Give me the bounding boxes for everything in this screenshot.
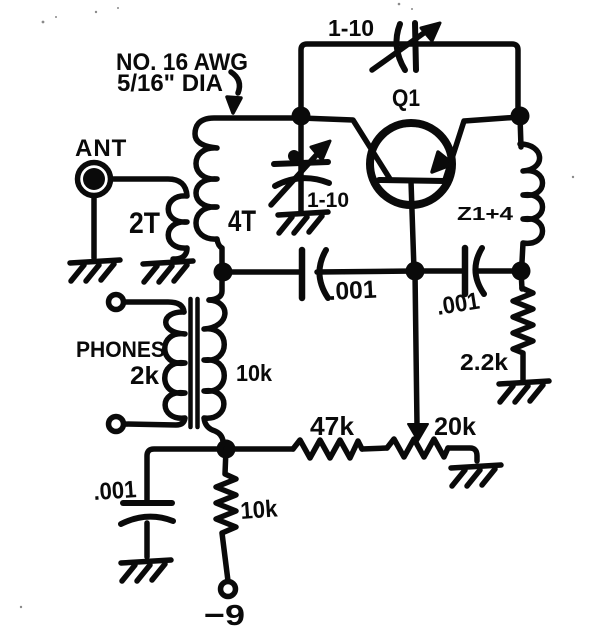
wire: L1 node down to secondary [209,272,222,300]
ground below pot [451,465,501,486]
svg-text:5/16" DIA: 5/16" DIA [117,70,223,97]
svg-text:Q1: Q1 [392,85,420,112]
wire: base node to 20k pot wiper [415,272,417,425]
wire: antenna jack to ground [91,196,97,258]
resistor R2 47k [293,440,362,458]
terminal: phones bottom [109,417,124,432]
capacitor C3 .001 left plate [299,250,306,298]
svg-text:2.2k: 2.2k [460,349,508,375]
transformer T1 secondary winding 10k [204,300,225,446]
transformer T1 core line right [195,299,200,427]
svg-text:−9: −9 [204,600,245,632]
ground below R1 [499,381,549,402]
wire: bottom junction to 47k [226,446,293,452]
svg-text:Z1+4: Z1+4 [457,204,513,224]
wire: C3 to emitter node [317,271,415,272]
capacitor C1 adjustment arrow [372,23,440,70]
svg-text:.001: .001 [328,276,377,306]
wire: left node to Q1 (collector lead) [301,118,390,179]
capacitor C2 variable 1-10 (middle) lead from node to ground [298,116,304,212]
capacitor C1 variable 1-10 (top) left curved plate [396,24,405,70]
capacitor C1 variable 1-10 (top) right straight plate [415,23,416,70]
terminal: antenna jack [78,163,111,196]
ground below C5 [121,560,171,581]
svg-text:4T: 4T [228,205,256,238]
leader arrow from note to coil L1 [227,72,241,113]
capacitor C2 top plate [274,162,328,164]
ground below 2T coil [143,261,193,282]
svg-text:20k: 20k [434,413,476,441]
svg-text:47k: 47k [310,411,355,441]
terminal: phones top [109,295,124,310]
ground below antenna jack [70,260,120,281]
svg-text:1-10: 1-10 [328,15,374,41]
inductor L1 main coil 4T [195,118,301,272]
terminal: -9V battery [221,582,236,597]
wire: pot right end to ground [448,448,477,461]
svg-text:10k: 10k [236,360,272,386]
wire: Q1 base lead down through emitter node [411,181,414,270]
node: junction of top loop and Z coil at right [511,107,530,126]
resistor R4 10k [216,449,236,581]
arrowhead: pot wiper [408,424,428,441]
transistor Q1 base bar [379,180,444,181]
capacitor C2 bottom curved plate [275,178,329,186]
svg-text:.001: .001 [93,476,138,506]
wire: emitter node to C4 [415,268,463,274]
wire: C4 to right rail node [477,268,513,274]
capacitor C5 .001 bottom curved plate [121,517,173,524]
wire: 47k to 20k pot [362,448,387,449]
wire: top feedback loop [301,44,518,116]
inductor Z1 choke coil [520,144,543,262]
capacitor C3 .001 right curved plate [319,250,328,298]
potentiometer R3 20k body [387,439,448,457]
wire: right node to Q1 (emitter lead) [445,117,520,180]
svg-text:1-10: 1-10 [307,189,349,212]
svg-text:10k: 10k [240,495,279,525]
wire: bottom junction to C5 [147,449,218,503]
capacitor C2 adjustment arrow [271,141,330,205]
svg-text:PHONES: PHONES [76,337,165,362]
wire: C5 to ground [144,523,150,557]
node: bottom junction [217,440,236,459]
transistor Q1 circle [370,123,452,205]
capacitor C4 .001 left plate [462,248,469,294]
resistor R1 2.2k [513,288,533,380]
wire: L1 bottom to C3 [223,269,300,275]
wire: right rail top node down to Z coil [520,116,521,147]
transistor Q1 emitter arrowhead [432,152,453,172]
node: junction of L1 top, C1, C2 and Q1 [292,107,311,126]
wire: phones top terminal to primary [124,302,184,312]
svg-text:2T: 2T [129,207,160,240]
capacitor C5 .001 top plate [123,500,172,506]
transformer T1 primary winding 2k [124,312,185,425]
node: right rail / Z coil / 2.2k junction [512,262,531,281]
svg-text:2k: 2k [130,362,159,390]
ground below C2 [278,212,328,233]
transformer T1 core line left [188,299,193,427]
inductor 2T antenna coupling coil (with wire from antenna) [111,179,187,259]
node: emitter junction [406,262,425,281]
wire: rail node to R1 [521,271,522,289]
capacitor C4 .001 right curved plate [475,248,484,294]
node: L1 bottom / transformer / C3 junction [214,263,233,282]
svg-text:ANT: ANT [75,135,127,162]
